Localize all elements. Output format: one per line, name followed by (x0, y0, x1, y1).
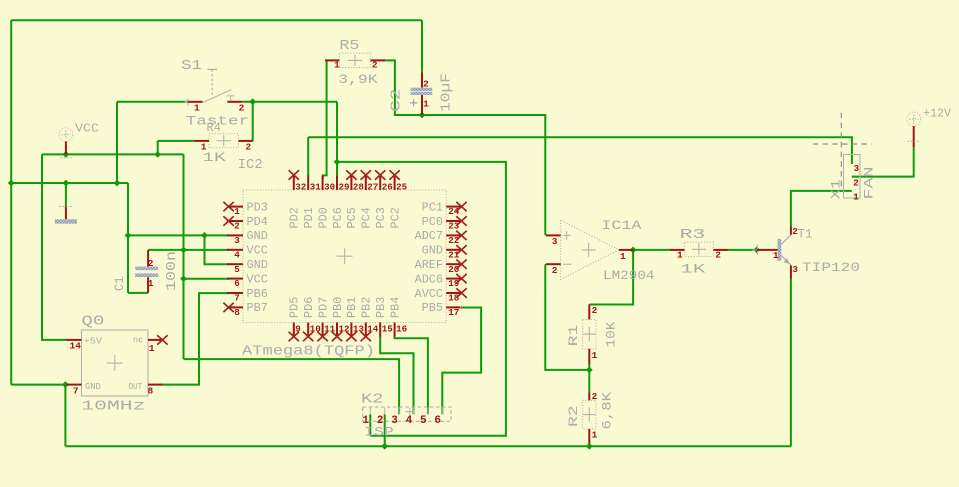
no-connect IC2 pin 32 (289, 170, 299, 179)
svg-text:23: 23 (448, 221, 460, 232)
svg-text:18: 18 (448, 293, 460, 304)
svg-text:20: 20 (448, 264, 459, 275)
svg-text:14: 14 (70, 340, 82, 351)
resistor R1 (566, 305, 619, 365)
svg-text:FAN: FAN (863, 167, 877, 200)
switch S1 (181, 58, 249, 129)
no-connect IC2 pin 1 (223, 202, 233, 211)
svg-text:26: 26 (382, 182, 393, 193)
svg-text:VCC: VCC (247, 273, 268, 286)
svg-text:16: 16 (396, 323, 407, 334)
IC2 pin 29 PC6 (332, 176, 350, 229)
svg-text:3,9K: 3,9K (338, 73, 378, 87)
svg-text:8: 8 (148, 385, 154, 396)
svg-text:3: 3 (234, 235, 240, 246)
supply VCC (59, 123, 99, 158)
wire R2 pin1 to GND (588, 443, 590, 446)
wire R1 pin1 to R2 pin2 (588, 365, 590, 393)
IC2 pin 2 PD4 (227, 216, 268, 232)
svg-text:4: 4 (406, 415, 413, 427)
capacitor C1 (112, 250, 180, 293)
IC2 pin 13 PB1 (346, 297, 364, 337)
IC2 pin 9 PD5 (289, 297, 302, 337)
svg-text:PD5: PD5 (289, 297, 302, 318)
IC2 pin 3 GND (227, 230, 268, 246)
svg-text:PD6: PD6 (303, 297, 316, 318)
svg-text:2: 2 (372, 60, 378, 71)
svg-text:8: 8 (234, 307, 240, 318)
svg-text:1: 1 (148, 278, 154, 289)
svg-text:1: 1 (592, 430, 598, 441)
svg-text:22: 22 (448, 235, 459, 246)
no-connect IC2 pin 2 (223, 216, 233, 225)
wire R4 pin1 drop (157, 141, 159, 155)
no-connect IC2 pin 10 (303, 332, 313, 341)
svg-text:21: 21 (448, 249, 460, 260)
IC2 pin 11 PD7 (317, 297, 335, 337)
junction R4-VCC (154, 151, 161, 158)
junction GND pin5 (201, 232, 208, 239)
wire VCC drop (183, 154, 185, 359)
wire C2 pin2 up (421, 20, 423, 72)
IC2 pin 4 VCC (227, 245, 268, 261)
svg-text:2: 2 (239, 103, 245, 114)
wire GND to Q0 (11, 384, 67, 386)
resistor R3 (670, 227, 728, 277)
wire feedback to R1 pin2 (589, 250, 633, 305)
junction GND symbol (63, 180, 70, 187)
svg-text:3: 3 (552, 236, 558, 247)
IC2 pin 7 PB6 (227, 288, 268, 304)
wire R5 pin2 to IC1A pin3 (385, 60, 546, 235)
wire to R4 pin2 (252, 102, 254, 141)
no-connect IC2 pin 12 (332, 332, 342, 341)
T1 pin 3 emitter (791, 264, 798, 279)
K2 pin 1 (362, 407, 370, 427)
wire C1 pin1 (128, 292, 148, 294)
svg-text:PB3: PB3 (375, 297, 388, 318)
IC2 pin 31 PD1 (303, 176, 321, 229)
svg-text:28: 28 (353, 182, 365, 193)
svg-text:1K: 1K (202, 151, 226, 165)
junction T1 base (753, 247, 760, 254)
junction rail B left (8, 180, 15, 187)
T1 pin 1 base (757, 250, 779, 261)
IC2 pin 19 ADC6 (415, 273, 461, 289)
svg-text:TIP120: TIP120 (802, 260, 860, 275)
wire VCC to IC2 pin6 (184, 278, 229, 280)
svg-text:PB7: PB7 (247, 302, 268, 315)
IC2 pin 12 PB0 (332, 297, 350, 337)
svg-text:15: 15 (382, 323, 394, 334)
wire GND down left (64, 385, 66, 447)
wire GND to IC2 pin3 (128, 234, 229, 236)
no-connect IC2 pin 8 (223, 303, 233, 312)
no-connect IC2 pin 23 (456, 216, 466, 225)
IC U-IC2 ATmega8 body (243, 190, 446, 323)
wire GND bottom rail (65, 445, 791, 447)
wire RESET drop to pin29 (336, 102, 338, 176)
junction VCC pin4 (180, 247, 187, 254)
svg-text:GND: GND (247, 230, 268, 243)
IC1A pin 2 (546, 264, 561, 276)
no-connect IC2 pin 14 (361, 332, 371, 341)
IC2 pin 1 PD3 (227, 201, 268, 217)
svg-text:6: 6 (234, 278, 240, 289)
svg-text:19: 19 (448, 278, 459, 289)
wire VCC to Q0 pin14 (42, 154, 67, 340)
svg-text:R1: R1 (566, 324, 581, 346)
ground GND (55, 207, 77, 224)
svg-text:1: 1 (362, 415, 369, 427)
svg-text:1: 1 (194, 103, 200, 114)
wire PB4 to K2 pin5 (395, 337, 428, 414)
svg-text:K2: K2 (361, 391, 384, 407)
wire T1 emitter down (790, 278, 792, 446)
svg-text:R2: R2 (566, 406, 581, 428)
no-connect IC2 pin 27 (361, 170, 371, 179)
svg-text:IC1A: IC1A (601, 219, 642, 233)
wire X1 pin1 to T1 collector (791, 191, 852, 226)
svg-text:LM2904: LM2904 (603, 269, 655, 283)
wire railB to C1 (127, 183, 129, 293)
svg-text:S1: S1 (181, 58, 202, 74)
wire IC2 PB6 to Q0 OUT (161, 293, 229, 385)
svg-text:24: 24 (448, 206, 460, 217)
wire K2 pin2 to GND (384, 414, 386, 446)
junction GND rail (125, 232, 132, 239)
svg-text:2: 2 (853, 178, 859, 189)
svg-text:PB5: PB5 (422, 302, 443, 315)
wire IC1A out to R3 (633, 249, 670, 251)
svg-text:2: 2 (423, 78, 429, 89)
wire GND left border (10, 20, 12, 384)
svg-text:OUT: OUT (128, 381, 142, 392)
no-connect IC2 pin 13 (346, 332, 356, 341)
svg-text:2: 2 (592, 391, 598, 402)
svg-text:10K: 10K (604, 321, 619, 347)
no-connect Q0 pin 1 (157, 335, 167, 344)
junction divider (586, 367, 593, 374)
svg-text:3: 3 (854, 163, 860, 174)
no-connect IC2 pin 19 (456, 274, 466, 283)
junction Q0 GND (62, 381, 69, 388)
IC2 pin 20 AREF (415, 259, 461, 275)
junction S1 pin1 (114, 180, 121, 187)
svg-text:25: 25 (396, 182, 408, 193)
K2 pin 2 (377, 407, 385, 427)
svg-text:27: 27 (367, 182, 378, 193)
svg-text:2: 2 (377, 415, 384, 427)
svg-text:1: 1 (677, 250, 683, 261)
no-connect IC2 pin 22 (456, 231, 466, 240)
svg-text:nc: nc (133, 335, 144, 346)
transistor T1 TIP120 (753, 226, 861, 275)
wire S1 pin2 (242, 101, 337, 103)
IC2 pin 17 PB5 (422, 302, 461, 318)
no-connect IC2 pin 28 (346, 170, 356, 179)
svg-text:PB2: PB2 (361, 297, 374, 318)
svg-text:AREF: AREF (415, 259, 443, 272)
K2 pin 4 (406, 407, 414, 427)
svg-text:32: 32 (295, 182, 306, 193)
IC2 pin 16 PB4 (389, 297, 407, 337)
wire GND symbol stem (65, 183, 67, 207)
wire VCC to K2 pin3 (184, 359, 400, 414)
wire GND to IC2 pin5 (205, 235, 229, 264)
capacitor C2 (390, 72, 455, 115)
svg-text:R5: R5 (339, 38, 359, 54)
svg-text:29: 29 (339, 182, 350, 193)
op-amp IC1A LM2904 (561, 219, 655, 283)
svg-text:1: 1 (620, 251, 626, 262)
resistor R4 (195, 120, 253, 165)
svg-text:2: 2 (792, 226, 798, 237)
no-connect IC2 pin 20 (456, 260, 466, 269)
no-connect IC2 pin 18 (456, 288, 466, 297)
resistor R5 (325, 38, 385, 87)
svg-text:2: 2 (552, 265, 558, 276)
IC2 pin 14 PB2 (361, 297, 379, 337)
wire GND rail B (11, 182, 128, 184)
junction IC1A out (630, 247, 637, 254)
no-connect IC2 pin 25 (389, 170, 399, 179)
svg-text:R4: R4 (207, 120, 222, 135)
svg-text:3: 3 (792, 264, 798, 275)
supply +12V (907, 107, 951, 147)
wire R5 pin1 to PD0 (323, 60, 327, 179)
svg-text:GND: GND (422, 245, 443, 258)
svg-text:6: 6 (434, 415, 441, 427)
svg-text:1: 1 (234, 206, 240, 217)
svg-text:VCC: VCC (247, 245, 268, 258)
svg-text:2: 2 (234, 221, 240, 232)
junction RESET (334, 159, 341, 166)
svg-text:10MHz: 10MHz (81, 399, 145, 415)
svg-text:PB0: PB0 (332, 297, 345, 318)
IC2 pin 23 PC0 (422, 216, 461, 232)
connector X1 FAN (830, 155, 877, 203)
K2 pin 6 (434, 407, 442, 427)
IC2 pin 30 PD0 (317, 176, 335, 229)
svg-text:17: 17 (448, 307, 459, 318)
IC2 pin 6 VCC (227, 273, 268, 289)
svg-text:2: 2 (246, 142, 252, 153)
wire IC1A pin2 to divider (545, 264, 589, 370)
svg-text:R3: R3 (680, 227, 706, 243)
svg-text:1: 1 (334, 60, 340, 71)
wire PB3 to K2 pin4 (380, 337, 413, 414)
svg-text:PC0: PC0 (422, 216, 443, 229)
wire PD1 to X1 pin3 (308, 137, 852, 164)
svg-text:3: 3 (391, 415, 398, 427)
svg-text:VCC: VCC (75, 123, 99, 136)
T1 pin 2 collector (791, 226, 798, 237)
wire PB5 to K2 pin6 (442, 308, 481, 415)
svg-text:PD3: PD3 (247, 201, 268, 214)
IC2 pin 24 PC1 (422, 201, 461, 217)
svg-text:5: 5 (234, 264, 240, 275)
svg-text:C1: C1 (112, 276, 127, 291)
IC2 origin cross (337, 248, 353, 264)
svg-text:31: 31 (310, 182, 322, 193)
svg-text:4: 4 (234, 249, 240, 260)
svg-text:2: 2 (148, 258, 154, 269)
svg-text:1: 1 (853, 191, 859, 202)
junction C2 pin1 (419, 112, 426, 119)
svg-text:+5V: +5V (84, 335, 103, 346)
svg-text:PD0: PD0 (317, 207, 330, 228)
svg-text:ADC7: ADC7 (415, 230, 443, 243)
no-connect IC2 pin 26 (375, 170, 385, 179)
svg-text:6,8K: 6,8K (600, 392, 615, 430)
no-connect IC2 pin 11 (317, 332, 327, 341)
IC2 pin 32 PD2 (289, 176, 307, 229)
svg-text:1: 1 (773, 250, 779, 261)
K2 pin 3 (391, 407, 399, 427)
IC2 pin 18 AVCC (415, 288, 461, 304)
wire PD1 drop (307, 137, 309, 176)
svg-text:PB4: PB4 (389, 297, 402, 318)
svg-text:1K: 1K (680, 262, 705, 277)
wire VCC rail A (42, 153, 184, 155)
svg-text:PB1: PB1 (346, 297, 359, 318)
wire R4 pin1 (158, 140, 195, 142)
X1 drawing crosshair dashed (813, 113, 872, 191)
no-connect IC2 pin 9 (289, 332, 299, 341)
svg-text:PC1: PC1 (422, 201, 443, 214)
IC2 pin 15 PB3 (375, 297, 393, 337)
wire X1 pin2 to +12V (852, 147, 914, 176)
svg-text:PD1: PD1 (303, 207, 316, 228)
svg-text:PD4: PD4 (247, 216, 268, 229)
svg-text:7: 7 (73, 385, 79, 396)
IC2 pin 10 PD6 (303, 297, 321, 337)
wire C1 pin2 to IC2 pin4 (148, 249, 229, 251)
junction S1-R4 (249, 98, 256, 105)
wire RESET to K2 pin1 (337, 162, 506, 436)
IC2 pin 21 GND (422, 245, 461, 261)
svg-text:30: 30 (324, 182, 335, 193)
svg-text:C2: C2 (390, 89, 405, 112)
junction R2 GND (586, 443, 593, 450)
IC2 pin 5 GND (227, 259, 268, 275)
svg-text:5: 5 (420, 415, 427, 427)
svg-text:100n: 100n (165, 251, 180, 291)
svg-text:IC2: IC2 (238, 157, 263, 173)
junction VCC symbol (63, 151, 70, 158)
svg-text:2: 2 (715, 250, 721, 261)
svg-text:+12V: +12V (923, 107, 951, 120)
svg-text:2: 2 (592, 305, 598, 316)
svg-text:T1: T1 (798, 226, 813, 241)
svg-text:10µF: 10µF (440, 73, 455, 112)
svg-text:AVCC: AVCC (415, 288, 443, 301)
svg-text:PC6: PC6 (332, 207, 345, 228)
svg-text:PC3: PC3 (375, 207, 388, 228)
oscillator Q0 10MHz (67, 314, 163, 415)
wire S1 pin1 drop (116, 102, 118, 183)
svg-text:PC4: PC4 (361, 207, 374, 228)
svg-text:7: 7 (234, 293, 240, 304)
K2 pin 5 (420, 407, 428, 427)
IC2 pin 26 PC3 (375, 176, 393, 229)
resistor R2 (566, 391, 615, 443)
wire S1 pin1 (117, 101, 188, 103)
svg-text:GND: GND (247, 259, 268, 272)
IC2 pin 22 ADC7 (415, 230, 461, 246)
svg-text:PC5: PC5 (346, 207, 359, 228)
svg-text:1: 1 (149, 343, 155, 354)
IC1A pin 3 (546, 235, 561, 247)
svg-text:PD2: PD2 (289, 207, 302, 228)
svg-text:ATmega8(TQFP): ATmega8(TQFP) (242, 343, 375, 359)
IC2 pin 25 PC2 (389, 176, 407, 229)
svg-text:PD7: PD7 (317, 297, 330, 318)
no-connect IC2 pin 21 (456, 245, 466, 254)
svg-text:1: 1 (592, 350, 598, 361)
junction K2 pin2 GND (381, 443, 388, 450)
IC2 pin 28 PC5 (346, 176, 364, 229)
wire GND top (11, 19, 422, 21)
svg-text:Q0: Q0 (81, 314, 104, 330)
wire K2 pin1 stub (369, 414, 371, 435)
svg-text:GND: GND (85, 381, 101, 392)
junction VCC pin6 (180, 275, 187, 282)
wire R3 to T1 base (728, 249, 757, 251)
IC1A pin 1 (619, 250, 633, 262)
svg-text:ISP: ISP (364, 425, 393, 439)
no-connect IC2 pin 24 (456, 202, 466, 211)
svg-text:PB6: PB6 (247, 288, 268, 301)
svg-text:PC2: PC2 (389, 207, 402, 228)
connector K2 ISP (361, 391, 451, 439)
IC2 pin 8 PB7 (227, 302, 268, 318)
IC2 pin 27 PC4 (361, 176, 379, 229)
svg-text:1: 1 (423, 99, 429, 110)
svg-text:ADC6: ADC6 (415, 273, 443, 286)
